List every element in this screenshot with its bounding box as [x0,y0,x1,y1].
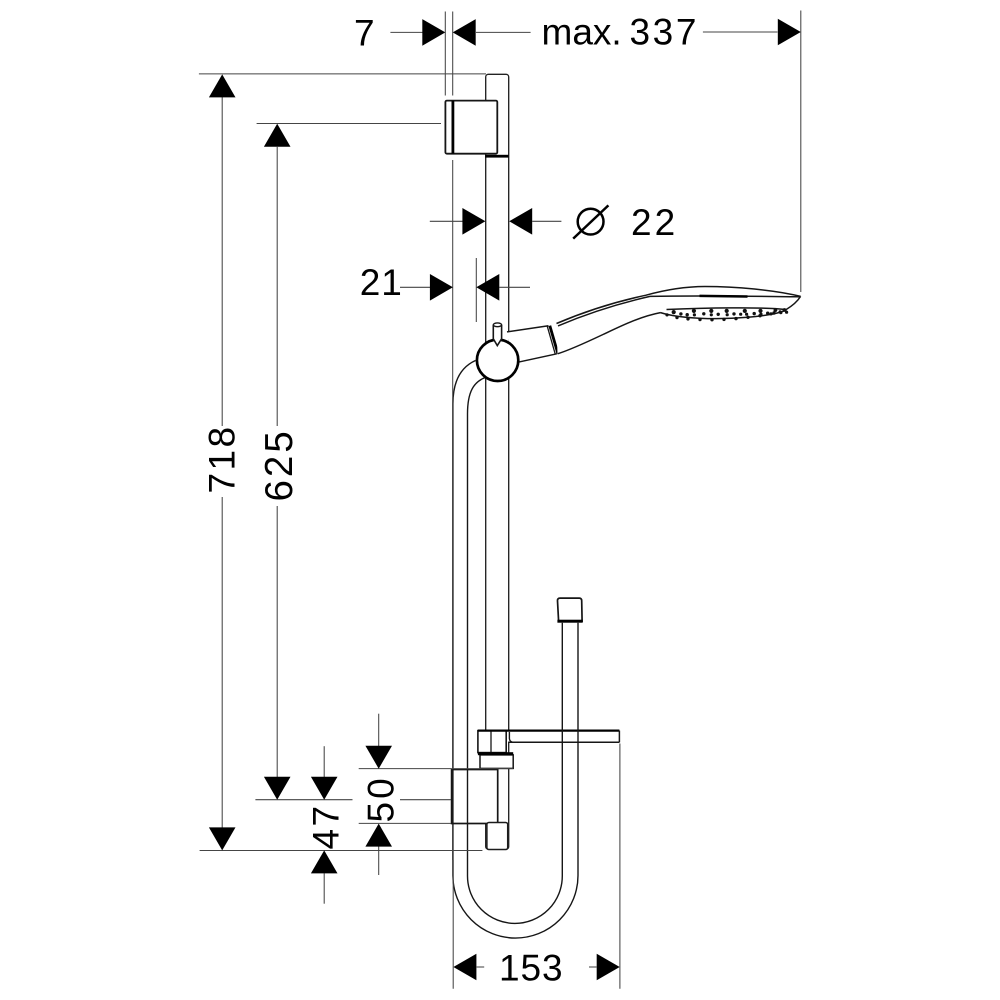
svg-text:50: 50 [361,775,402,822]
svg-text:153: 153 [499,948,563,989]
svg-text:21: 21 [360,262,403,303]
svg-text:7: 7 [354,13,375,54]
svg-text:625: 625 [258,428,301,501]
svg-text:22: 22 [631,202,678,243]
svg-text:47: 47 [306,804,347,850]
svg-text:337: 337 [630,12,700,53]
svg-text:max.: max. [542,12,622,53]
svg-text:718: 718 [202,425,243,494]
